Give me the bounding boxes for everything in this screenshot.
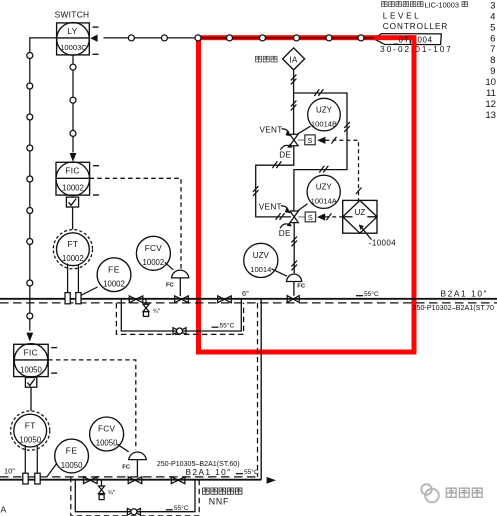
- flow arrow at no-flow outlet: [267, 477, 276, 484]
- solenoid S2: [298, 216, 305, 218]
- svg-text:10050: 10050: [20, 365, 42, 374]
- actuator dome UZV valve: [286, 274, 301, 281]
- instrument LY-10003C: [57, 23, 99, 56]
- globe valve on bypass 1: [173, 328, 186, 335]
- svg-text:FC: FC: [166, 283, 175, 289]
- svg-text:FIC: FIC: [65, 167, 79, 176]
- data link circles left column: [27, 53, 33, 320]
- svg-text:11: 11: [486, 88, 496, 99]
- svg-text:10050: 10050: [61, 461, 83, 470]
- svg-text:10050: 10050: [96, 439, 118, 448]
- pipe taps for FT-10050: [23, 473, 40, 484]
- svg-text:FT: FT: [25, 421, 36, 430]
- relay UZY-10014B: [308, 98, 341, 131]
- signal wire UZ to S1 (dashed): [325, 140, 358, 200]
- drain line jacket (dashed): [257, 303, 259, 477]
- svg-text:DE: DE: [279, 150, 291, 159]
- label 55C on bypass 2: [166, 509, 173, 511]
- svg-text:10: 10: [485, 77, 496, 88]
- svg-text:IA: IA: [289, 55, 298, 64]
- bypass pipe loop FCV-10050: [75, 480, 195, 512]
- bypass pipe loop FCV-10002: [121, 299, 241, 331]
- vent valve 1 (3-way): [290, 134, 298, 146]
- drain valve 3/4 inch bottom: [99, 480, 105, 499]
- transmitter FT-10050: [11, 411, 50, 450]
- shutoff pilot UZV-10014: [244, 243, 278, 277]
- main 10 inch process pipe: [0, 479, 261, 481]
- svg-text:LEVEL: LEVEL: [383, 12, 422, 21]
- svg-text:10002: 10002: [103, 280, 125, 289]
- wire branch to right leg: [294, 93, 347, 211]
- svg-text:8: 8: [490, 55, 495, 66]
- svg-text:FT: FT: [67, 240, 78, 249]
- data link wire from LY to left and down to FIC-10050: [30, 38, 57, 331]
- svg-text:7: 7: [490, 44, 495, 55]
- svg-text:10003C: 10003C: [60, 43, 87, 52]
- leader FCV-10002 to actuator: [165, 262, 174, 270]
- arrowhead into LY from data link: [90, 35, 97, 42]
- square root extractor below FIC-10002: [66, 197, 78, 229]
- watermark logo 仪表圈: [421, 484, 439, 502]
- svg-text:VENT: VENT: [260, 125, 283, 134]
- impulse lines FT-10002 to pipe taps: [68, 264, 79, 293]
- svg-text:DE: DE: [279, 229, 291, 238]
- svg-text:B2A1 10″: B2A1 10″: [441, 289, 489, 299]
- bypass jacket around FCV-10002 (dashed box): [116, 303, 243, 335]
- svg-text:004: 004: [418, 36, 433, 45]
- svg-text:10002: 10002: [62, 254, 84, 263]
- svg-text:CONTROLLER: CONTROLLER: [383, 22, 448, 31]
- svg-text:250-P10302–B2A1(ST.70: 250-P10302–B2A1(ST.70: [413, 303, 495, 312]
- svg-text:55°C: 55°C: [174, 504, 189, 512]
- svg-text:55°C: 55°C: [364, 290, 379, 298]
- svg-text:UZY: UZY: [316, 183, 333, 192]
- arrowhead into S2: [317, 213, 325, 220]
- svg-text:FE: FE: [66, 446, 78, 456]
- svg-text:UZV: UZV: [253, 251, 270, 260]
- leader UZY-10014A to vent valve 2: [298, 204, 308, 211]
- leader UZV-10014 to actuator: [272, 269, 288, 276]
- element FE-10002: [97, 258, 131, 292]
- instrument FIC-10050: [14, 344, 58, 378]
- drain valve 3/4 inch: [143, 299, 149, 316]
- data link wire LY down to FIC-10002: [72, 55, 74, 152]
- svg-text:4: 4: [490, 11, 496, 22]
- svg-text:3: 3: [490, 1, 495, 12]
- leader FE-10002 to pipe: [80, 287, 98, 296]
- grid row numbers: [485, 1, 496, 121]
- drain line down to no-flow outlet (solid): [260, 299, 262, 480]
- gate valve downstream of FCV-10050: [171, 477, 185, 484]
- instrument FIC-10002: [56, 162, 99, 196]
- svg-text:10014B: 10014B: [311, 119, 337, 128]
- svg-text:FE: FE: [108, 264, 120, 274]
- note 正常无流量 NNF: [203, 488, 242, 494]
- gate valve upstream of FCV-10050: [84, 477, 98, 484]
- arrow into FIC-10002: [70, 153, 77, 162]
- svg-text:S: S: [308, 136, 313, 145]
- globe valve on bypass 2: [127, 508, 140, 515]
- svg-text:LIC-10003: LIC-10003: [425, 1, 460, 10]
- slash marks on air lines: [253, 75, 350, 271]
- svg-text:A: A: [1, 505, 7, 515]
- svg-text:B2A1 10″: B2A1 10″: [186, 467, 232, 477]
- main 6 inch process pipe: [0, 298, 497, 300]
- signal wire FIC-10050 to FCV-10050 (dashed): [48, 360, 136, 450]
- svg-text:9: 9: [490, 66, 495, 77]
- svg-text:UZY: UZY: [316, 105, 333, 114]
- svg-text:12: 12: [485, 99, 496, 110]
- pipe taps for FT-10002: [65, 293, 81, 304]
- logic solver UZ-10004: [343, 200, 377, 233]
- controller valve circle FCV-10050: [90, 417, 124, 451]
- svg-text:FC: FC: [122, 465, 131, 471]
- svg-text:10002: 10002: [143, 258, 165, 267]
- leader with arrow to tag -10004: [362, 228, 372, 240]
- label 55C on bypass 1: [212, 326, 219, 328]
- arrow into FIC-10050: [26, 333, 33, 342]
- red annotation rectangle: [199, 38, 415, 352]
- svg-text:SWITCH: SWITCH: [55, 10, 90, 20]
- svg-text:VENT: VENT: [259, 202, 282, 211]
- transmitter FT-10002: [53, 230, 92, 269]
- element FE-10050: [55, 439, 89, 473]
- steam tracing line (dashed): [0, 302, 497, 304]
- svg-text:10014A: 10014A: [311, 197, 338, 206]
- shutoff valve UZV body: [287, 296, 299, 303]
- actuator dome FCV-10050: [129, 452, 147, 460]
- off-page connector flag LOT-10004: [374, 34, 442, 45]
- control valve FCV-10002 body: [175, 296, 189, 303]
- svg-text:LY: LY: [67, 27, 77, 36]
- signal wire FIC-10002 to FCV-10002 (dashed): [90, 178, 181, 268]
- svg-text:13: 13: [485, 110, 496, 121]
- leader UZY-10014B to vent valve 1: [298, 126, 311, 134]
- svg-text:-10004: -10004: [369, 238, 396, 247]
- bypass jacket bottom (dashed box): [71, 477, 199, 516]
- data link wire LIC-10003 to LY (with circles): [104, 37, 374, 39]
- svg-text:55°C: 55°C: [220, 321, 235, 329]
- svg-text:_0T: _0T: [392, 36, 409, 45]
- svg-text:10014: 10014: [250, 265, 271, 274]
- svg-text:FCV: FCV: [98, 425, 116, 434]
- tracing line above pipe (dashed): [0, 476, 258, 478]
- vent valve 2 (3-way): [290, 211, 298, 223]
- wire vent valve 2 down to UZV actuator: [293, 223, 295, 274]
- controller valve positioner circle FCV-10002: [136, 236, 170, 270]
- air supply wire from IA down to vent valve 1: [256, 70, 347, 273]
- svg-text:10″: 10″: [4, 467, 15, 476]
- svg-text:¾″: ¾″: [108, 490, 116, 497]
- svg-text:5: 5: [490, 22, 495, 33]
- svg-text:10050: 10050: [19, 435, 41, 444]
- arrowhead into S1: [317, 137, 325, 144]
- instrument air source diamond IA: [283, 48, 305, 70]
- leader FCV-10050 to actuator: [117, 444, 128, 452]
- svg-text:FIC: FIC: [24, 349, 38, 358]
- square root extractor below FIC-10050: [25, 378, 36, 411]
- gate valve downstream of FCV-10002: [218, 296, 232, 303]
- actuator dome FCV-10002: [172, 270, 189, 278]
- svg-text:6″: 6″: [242, 289, 249, 298]
- wire from vent valve 1 around to vent valve 2: [256, 146, 294, 217]
- impulse lines FT-10050 to pipe taps: [25, 445, 37, 473]
- svg-text:10002: 10002: [62, 184, 84, 193]
- svg-text:UZ: UZ: [355, 208, 366, 217]
- signal wire UZ to S2 (dashed): [325, 216, 343, 218]
- svg-text:55°C: 55°C: [244, 468, 259, 476]
- control valve FCV-10050 body: [128, 477, 142, 484]
- gate valve upstream of FCV-10002: [129, 296, 143, 303]
- svg-text:¾″: ¾″: [153, 308, 161, 315]
- note 自液位控制器LIC-10003来: [382, 1, 424, 6]
- relay UZY-10014A: [307, 175, 340, 208]
- svg-text:NNF: NNF: [209, 496, 229, 506]
- svg-text:FC: FC: [297, 283, 306, 289]
- leader FE-10050 to pipe: [47, 464, 56, 477]
- solenoid S1: [298, 139, 305, 141]
- label 仪表风 (instrument air): [255, 56, 277, 62]
- label 55C right section: [356, 295, 363, 297]
- svg-text:S: S: [308, 213, 313, 222]
- svg-text:FCV: FCV: [145, 244, 163, 253]
- svg-text:6: 6: [490, 33, 495, 44]
